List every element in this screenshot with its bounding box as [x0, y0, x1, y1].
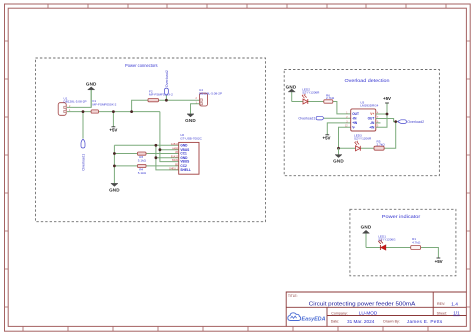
resistor R4: [138, 164, 147, 174]
svg-text:Power indicator: Power indicator: [382, 214, 421, 220]
svg-text:2.7kΩ: 2.7kΩ: [326, 96, 335, 100]
svg-text:MF-FSMF050X-2: MF-FSMF050X-2: [93, 103, 117, 107]
svg-text:LM393DRG4: LM393DRG4: [360, 104, 378, 108]
ground (overload top-left): [286, 84, 297, 101]
wire OUT right to flag and LED3 branch: [376, 119, 398, 149]
svg-text:SHELL: SHELL: [180, 168, 191, 172]
svg-text:+5V: +5V: [435, 259, 443, 264]
svg-text:Date:: Date:: [331, 320, 340, 324]
svg-text:GND: GND: [361, 225, 372, 230]
net flag Overload1 (horizontal): [298, 116, 323, 120]
svg-text:SZYY1206R: SZYY1206R: [302, 91, 320, 95]
net flag Overload2 (horizontal): [398, 120, 425, 124]
junction: [159, 148, 162, 151]
svg-text:Overload1: Overload1: [81, 154, 85, 171]
svg-text:1/1: 1/1: [453, 311, 460, 316]
svg-text:4.7kΩ: 4.7kΩ: [412, 240, 421, 244]
led LED1: [378, 234, 396, 250]
title text: [288, 294, 458, 308]
wire +IN row with +5V: [327, 123, 350, 135]
svg-text:5.1kΩ: 5.1kΩ: [138, 171, 147, 175]
power flag +5V (below main row): [109, 112, 117, 133]
svg-text:TITLE:: TITLE:: [288, 294, 298, 298]
svg-text:DB128L-5.08-2P: DB128L-5.08-2P: [64, 99, 87, 103]
USB connector U2: [169, 133, 203, 174]
date row: [331, 319, 443, 324]
power flag +5V (power indicator): [435, 258, 443, 264]
svg-text:Sheet:: Sheet:: [437, 311, 447, 315]
svg-text:Overload2: Overload2: [165, 70, 169, 87]
svg-text:GND: GND: [180, 143, 188, 147]
svg-text:Overload2: Overload2: [407, 120, 424, 124]
svg-text:GND: GND: [286, 84, 297, 89]
svg-text:-IN: -IN: [370, 121, 375, 125]
net flag Overload1 (vertical): [81, 139, 85, 171]
svg-text:GND: GND: [86, 81, 97, 86]
junction: [337, 147, 340, 150]
svg-text:Overload1: Overload1: [298, 117, 315, 121]
svg-text:2.7kΩ: 2.7kΩ: [377, 143, 386, 147]
wire U1 pin2 to GND: [67, 90, 91, 107]
section box: Overload detection: [284, 70, 439, 176]
wire main +5V row: [67, 111, 160, 113]
ground (power indicator): [361, 225, 372, 248]
svg-text:SZYY1206R: SZYY1206R: [354, 137, 372, 141]
svg-text:+5V: +5V: [109, 127, 117, 132]
svg-text:-IN: -IN: [352, 117, 357, 121]
svg-text:A4B9: A4B9: [172, 147, 179, 150]
svg-text:GT-USB-7002C: GT-USB-7002C: [180, 137, 202, 141]
svg-text:Drawn By:: Drawn By:: [383, 320, 400, 324]
title block frame: [286, 292, 466, 326]
wire branch up to F2 row: [132, 100, 200, 111]
power flag +5V (above U3): [383, 96, 391, 103]
svg-text:+5V: +5V: [323, 136, 331, 141]
wire to Overload1 flag: [82, 112, 84, 139]
svg-text:SZYY1206G: SZYY1206G: [378, 237, 396, 241]
svg-text:+5V: +5V: [383, 96, 391, 101]
resistor R5: [374, 140, 385, 151]
led LED2: [302, 88, 320, 104]
wire CC1 row: [114, 153, 178, 155]
svg-text:DB128L-5.08-2P: DB128L-5.08-2P: [199, 91, 222, 95]
wire power indicator row: [366, 248, 438, 258]
ground (top of power connectors): [86, 81, 97, 107]
svg-text:James E. Petts: James E. Petts: [407, 319, 443, 324]
resistor R1: [411, 237, 421, 249]
wire Overload1 to -IN: [324, 117, 351, 119]
svg-text:V-: V-: [352, 126, 355, 130]
svg-text:31 Mar. 2024: 31 Mar. 2024: [347, 319, 375, 324]
svg-text:GND: GND: [109, 188, 120, 193]
wire U4 pin1 to GND: [191, 104, 200, 114]
wire GND bus of USB: [114, 145, 178, 183]
ground (below U4): [185, 114, 196, 123]
company row: [331, 311, 460, 316]
wire main vertical to VBUS pins: [160, 112, 179, 162]
fuse F1: [91, 99, 117, 113]
wire V+ junction down to +IN right: [376, 114, 387, 127]
svg-text:+IN: +IN: [352, 121, 358, 125]
junction: [155, 144, 158, 147]
junction: [386, 113, 389, 116]
wire stub to Overload2 flag: [165, 95, 167, 100]
EasyEDA logo: [288, 313, 326, 323]
junction: [394, 120, 397, 123]
resistor R6: [324, 93, 335, 103]
wire CC2 row: [114, 165, 178, 167]
junction: [155, 156, 158, 159]
junction: [113, 152, 116, 155]
svg-text:REV:: REV:: [437, 302, 445, 306]
svg-text:OUT: OUT: [352, 112, 359, 116]
svg-text:B4A9: B4A9: [172, 159, 179, 162]
ground (below USB resistors): [109, 183, 120, 192]
svg-text:LU-MOD: LU-MOD: [359, 311, 378, 316]
svg-text:A1B12: A1B12: [171, 143, 179, 146]
junction: [130, 110, 133, 113]
ground (below LED3): [333, 148, 344, 163]
svg-text:GND: GND: [185, 118, 196, 123]
svg-text:GND: GND: [333, 159, 344, 164]
wire LED3 row: [339, 147, 375, 149]
section box: Power connectors: [36, 58, 266, 222]
connector U1: [58, 96, 86, 115]
svg-text:SHELL1: SHELL1: [169, 168, 179, 171]
connector U4: [195, 88, 222, 106]
op-amp U3: [345, 100, 379, 131]
svg-text:B1A12: B1A12: [171, 155, 179, 158]
svg-text:Overload detection: Overload detection: [345, 78, 390, 84]
led LED3: [354, 134, 372, 151]
section box: Power indicator: [350, 209, 456, 275]
fuse F2: [148, 89, 173, 102]
net flag Overload2 (vertical): [164, 70, 168, 95]
wire LED2 row: [292, 102, 351, 114]
svg-text:5.1kΩ: 5.1kΩ: [138, 158, 147, 162]
svg-text:Circuit protecting power feede: Circuit protecting power feeder 500mA: [309, 301, 416, 307]
svg-text:V+: V+: [370, 112, 374, 116]
svg-text:OUT: OUT: [368, 117, 375, 121]
svg-text:Company:: Company:: [331, 311, 347, 315]
power flag +5V (left of U3): [323, 135, 331, 141]
svg-text:Power connectors: Power connectors: [125, 63, 158, 69]
wire V+ to +5V: [376, 103, 387, 114]
svg-text:1.4: 1.4: [451, 301, 458, 307]
junction: [113, 165, 116, 168]
junction: [82, 110, 85, 113]
junction: [165, 99, 168, 102]
svg-text:MF-FSMF050X-2: MF-FSMF050X-2: [149, 93, 173, 97]
wire V- to GND: [339, 127, 351, 148]
junction: [112, 110, 115, 113]
resistor R3: [138, 152, 147, 162]
svg-text:EasyEDA: EasyEDA: [302, 316, 326, 322]
svg-text:+IN: +IN: [369, 126, 375, 130]
